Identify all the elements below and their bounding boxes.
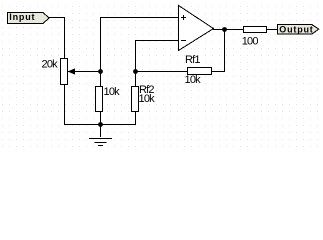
wire: feedback vertical column <box>224 29 225 72</box>
potentiometer wiper arrowhead <box>68 68 75 74</box>
wire: node B vertical (minus input column) <box>135 40 136 86</box>
wire: Rf1 right to feedback column <box>211 71 225 72</box>
wire: R1 bottom to rail <box>100 111 101 125</box>
junction dot: op-amp output <box>222 27 227 32</box>
op-amp plus sign (non-inverting input) <box>181 15 186 20</box>
resistor Rf2 body <box>132 87 139 112</box>
wire: pot bottom down to rail <box>64 83 65 125</box>
svg-text:10k: 10k <box>139 93 156 105</box>
junction dot: node B/feedback <box>133 69 138 74</box>
wire: elbow down to pot top <box>64 17 65 59</box>
op-amp minus sign (inverting input) <box>181 40 186 41</box>
wire: feedback left segment to Rf1 <box>135 71 188 72</box>
net flag Input <box>7 12 50 24</box>
svg-text:20k: 20k <box>42 58 59 70</box>
wire: node A vertical (plus input column) <box>100 17 101 86</box>
svg-text:Input: Input <box>9 12 35 22</box>
ground symbol <box>89 138 112 146</box>
wire: Rf2 bottom to rail <box>135 111 136 125</box>
resistor R1 10k body <box>96 87 103 112</box>
resistor 100 body <box>244 27 267 33</box>
resistor Rf1 body <box>188 68 212 75</box>
wire: op-amp output to R100 <box>213 29 244 30</box>
wire: bottom rail <box>64 124 136 125</box>
wire: wiper horizontal <box>68 71 100 72</box>
op-amp U1 triangle <box>179 6 214 51</box>
wire: Input flag to elbow <box>49 17 65 18</box>
svg-text:Rf1: Rf1 <box>185 54 200 66</box>
wire: plus input horizontal <box>100 17 179 18</box>
svg-text:100: 100 <box>242 36 259 48</box>
junction dot: ground <box>98 122 103 127</box>
wire: minus input horizontal <box>135 40 179 41</box>
wire: R100 to Output flag <box>266 29 278 30</box>
junction dot: wiper/node A <box>98 69 103 74</box>
wire: ground stem <box>100 125 101 137</box>
potentiometer 20k body <box>61 59 68 85</box>
svg-text:Output: Output <box>279 24 313 34</box>
svg-text:10k: 10k <box>185 74 202 86</box>
net flag Output <box>277 24 320 35</box>
svg-text:10k: 10k <box>104 86 121 98</box>
